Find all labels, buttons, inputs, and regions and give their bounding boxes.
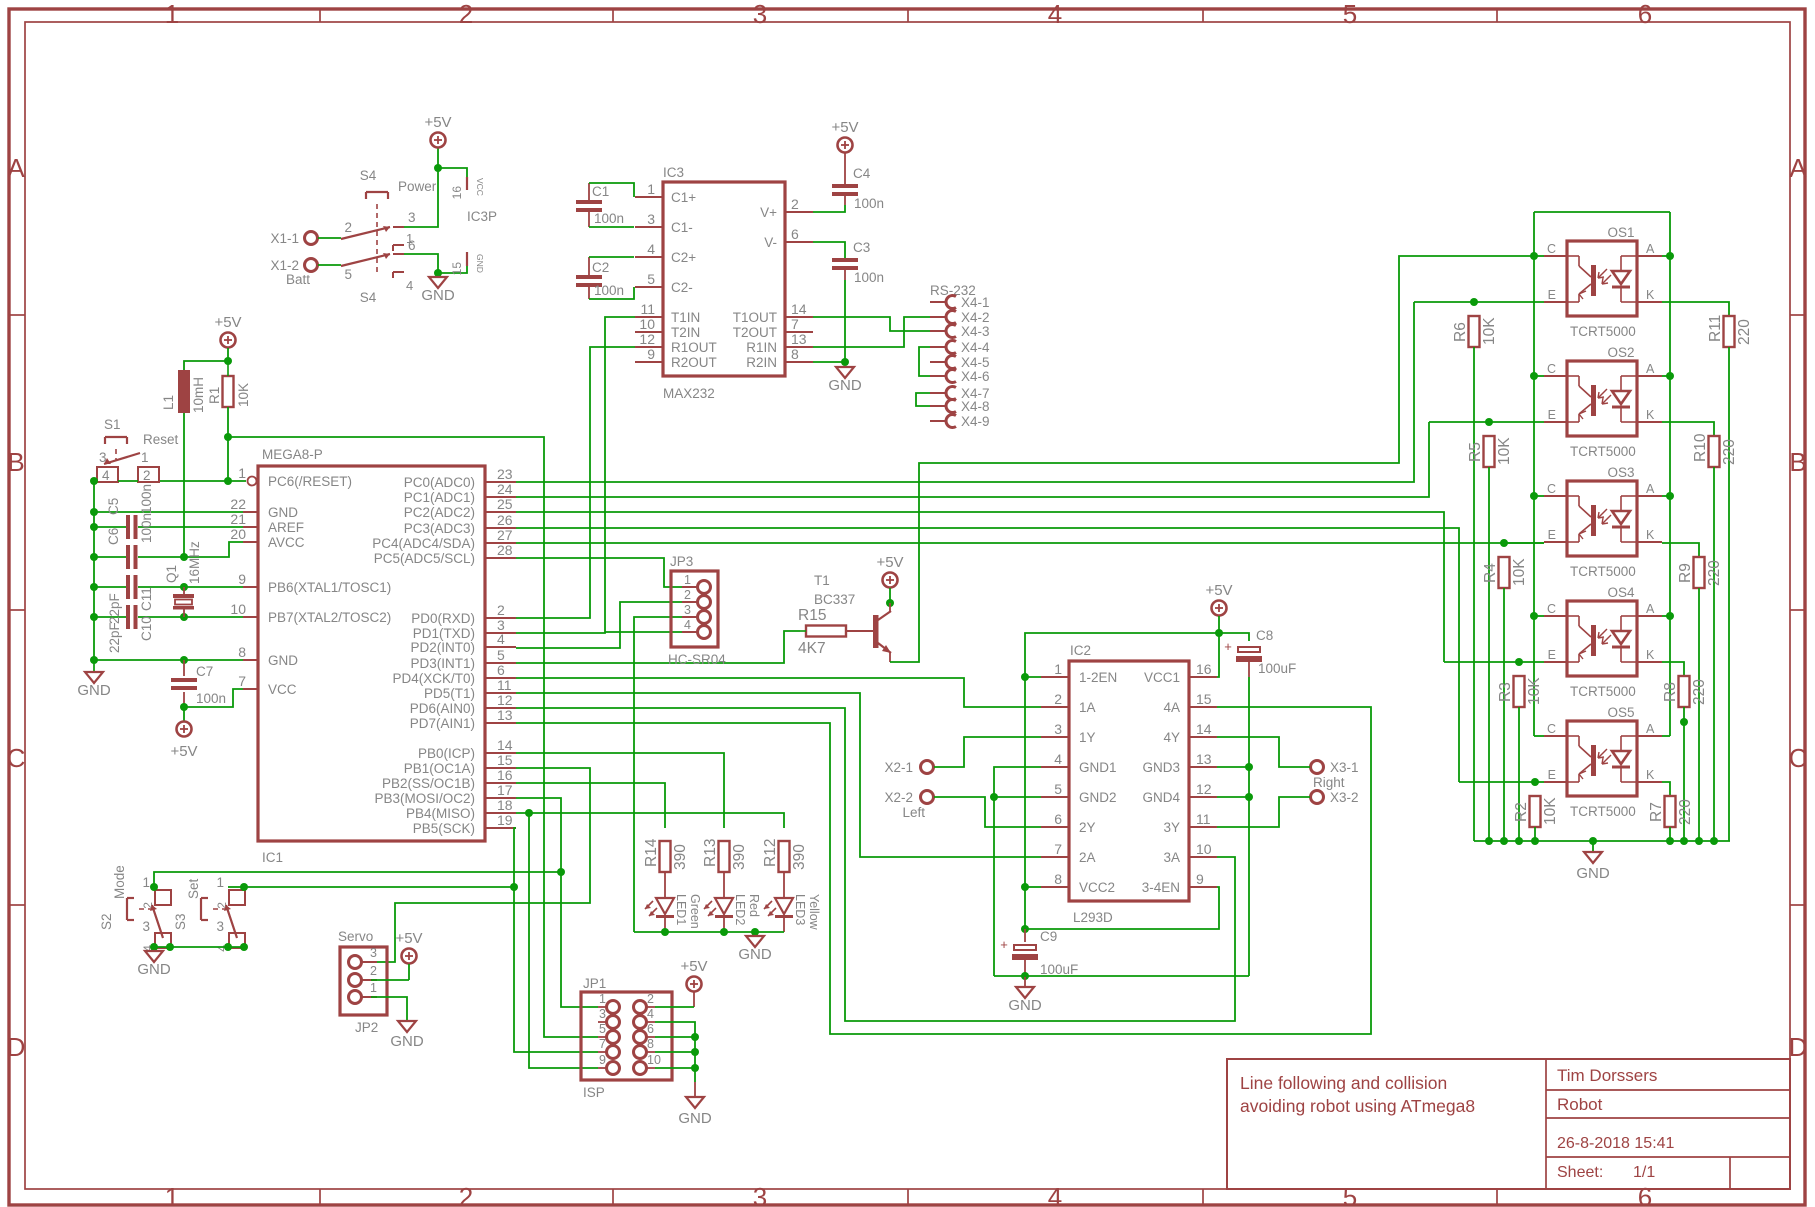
svg-text:15: 15 xyxy=(497,752,513,768)
svg-text:OS5: OS5 xyxy=(1607,705,1634,720)
svg-text:Power: Power xyxy=(398,179,437,194)
svg-text:8: 8 xyxy=(791,346,799,362)
svg-text:390: 390 xyxy=(672,844,689,870)
svg-text:avoiding robot using ATmega8: avoiding robot using ATmega8 xyxy=(1240,1096,1475,1116)
svg-text:1: 1 xyxy=(1054,661,1062,677)
svg-text:4Y: 4Y xyxy=(1163,730,1180,745)
svg-text:11: 11 xyxy=(497,677,512,693)
svg-text:10mH: 10mH xyxy=(191,377,206,413)
svg-text:2: 2 xyxy=(344,220,352,235)
svg-text:C3: C3 xyxy=(853,240,870,255)
svg-text:Mode: Mode xyxy=(112,865,127,899)
svg-text:Green: Green xyxy=(688,894,702,929)
svg-text:4: 4 xyxy=(1054,751,1062,767)
svg-text:2: 2 xyxy=(1054,691,1062,707)
svg-text:X4-8: X4-8 xyxy=(961,399,990,414)
svg-text:C6: C6 xyxy=(106,528,121,545)
svg-text:+5V: +5V xyxy=(214,314,241,331)
svg-text:LED3: LED3 xyxy=(793,894,807,925)
svg-text:Reset: Reset xyxy=(143,432,179,447)
svg-text:X4-5: X4-5 xyxy=(961,355,990,370)
svg-text:9: 9 xyxy=(647,346,655,362)
svg-text:3: 3 xyxy=(753,1182,767,1207)
svg-text:4: 4 xyxy=(102,468,110,483)
svg-text:GND: GND xyxy=(475,254,485,273)
svg-text:X4-9: X4-9 xyxy=(961,414,990,429)
svg-text:100n: 100n xyxy=(139,484,154,514)
svg-text:VCC2: VCC2 xyxy=(1079,880,1115,895)
svg-text:16MHz: 16MHz xyxy=(187,541,202,584)
svg-text:IC1: IC1 xyxy=(262,850,283,865)
svg-text:100uF: 100uF xyxy=(1258,661,1296,676)
svg-text:7: 7 xyxy=(1054,841,1062,857)
svg-text:VCC: VCC xyxy=(268,682,297,697)
svg-text:26-8-2018 15:41: 26-8-2018 15:41 xyxy=(1557,1135,1675,1152)
svg-text:PC6(/RESET): PC6(/RESET) xyxy=(268,474,352,489)
svg-text:S4: S4 xyxy=(360,168,377,183)
svg-text:2: 2 xyxy=(791,196,799,212)
svg-text:2: 2 xyxy=(370,964,377,978)
svg-text:GND: GND xyxy=(77,682,111,699)
svg-text:3: 3 xyxy=(216,919,224,934)
svg-text:10: 10 xyxy=(230,601,246,617)
svg-text:10: 10 xyxy=(647,1053,661,1067)
svg-text:14: 14 xyxy=(791,301,807,317)
svg-text:PB3(MOSI/OC2): PB3(MOSI/OC2) xyxy=(374,791,475,806)
svg-text:Sheet:: Sheet: xyxy=(1557,1164,1603,1181)
svg-text:K: K xyxy=(1646,528,1655,542)
svg-text:5: 5 xyxy=(599,1022,606,1036)
svg-text:LED2: LED2 xyxy=(733,894,747,925)
svg-text:PC1(ADC1): PC1(ADC1) xyxy=(404,490,475,505)
svg-text:C: C xyxy=(7,743,26,773)
svg-text:C: C xyxy=(1547,722,1556,736)
svg-text:28: 28 xyxy=(497,542,513,558)
svg-text:5: 5 xyxy=(497,647,505,663)
svg-text:7: 7 xyxy=(238,673,246,689)
svg-text:ISP: ISP xyxy=(583,1085,605,1100)
svg-text:D: D xyxy=(1789,1032,1808,1062)
svg-text:JP3: JP3 xyxy=(670,554,693,569)
svg-text:PB0(ICP): PB0(ICP) xyxy=(418,746,475,761)
svg-text:1: 1 xyxy=(165,1182,179,1207)
svg-text:6: 6 xyxy=(497,662,505,678)
svg-text:Red: Red xyxy=(747,894,761,917)
svg-text:R5: R5 xyxy=(1467,442,1484,462)
svg-text:V-: V- xyxy=(764,235,777,250)
svg-text:A: A xyxy=(7,153,25,183)
svg-text:C: C xyxy=(1547,602,1556,616)
svg-text:IC3: IC3 xyxy=(663,165,684,180)
svg-text:100n: 100n xyxy=(594,211,624,226)
svg-text:PD5(T1): PD5(T1) xyxy=(424,686,475,701)
svg-text:E: E xyxy=(1548,768,1556,782)
svg-text:+: + xyxy=(1224,639,1232,654)
svg-text:4K7: 4K7 xyxy=(798,640,826,657)
svg-text:L293D: L293D xyxy=(1073,910,1113,925)
svg-text:GND: GND xyxy=(421,287,455,304)
svg-text:R1IN: R1IN xyxy=(746,340,777,355)
svg-text:TCRT5000: TCRT5000 xyxy=(1570,444,1636,459)
svg-text:9: 9 xyxy=(238,571,246,587)
svg-text:C: C xyxy=(1547,242,1556,256)
svg-text:6: 6 xyxy=(1054,811,1062,827)
svg-text:PB7(XTAL2/TOSC2): PB7(XTAL2/TOSC2) xyxy=(268,610,391,625)
svg-text:12: 12 xyxy=(639,331,655,347)
svg-text:IC2: IC2 xyxy=(1070,643,1091,658)
svg-text:PC5(ADC5/SCL): PC5(ADC5/SCL) xyxy=(374,551,475,566)
svg-text:C2-: C2- xyxy=(671,280,693,295)
svg-text:23: 23 xyxy=(497,466,513,482)
svg-text:PC4(ADC4/SDA): PC4(ADC4/SDA) xyxy=(372,536,475,551)
svg-text:4: 4 xyxy=(684,618,691,632)
svg-text:220: 220 xyxy=(1706,560,1723,586)
svg-text:R10: R10 xyxy=(1692,433,1709,462)
svg-text:A: A xyxy=(1646,722,1655,736)
svg-text:22: 22 xyxy=(230,496,246,512)
svg-text:8: 8 xyxy=(238,644,246,660)
svg-text:R6: R6 xyxy=(1452,322,1469,342)
svg-text:Set: Set xyxy=(186,878,201,899)
svg-text:1: 1 xyxy=(165,0,179,29)
svg-text:10: 10 xyxy=(639,316,655,332)
svg-text:2A: 2A xyxy=(1079,850,1096,865)
svg-text:T1: T1 xyxy=(814,573,830,588)
svg-text:C5: C5 xyxy=(106,498,121,515)
svg-text:22pF: 22pF xyxy=(107,593,122,624)
svg-text:GND3: GND3 xyxy=(1142,760,1180,775)
svg-text:PB1(OC1A): PB1(OC1A) xyxy=(404,761,475,776)
svg-text:2: 2 xyxy=(684,588,691,602)
svg-text:L1: L1 xyxy=(161,395,176,410)
svg-text:TCRT5000: TCRT5000 xyxy=(1570,564,1636,579)
svg-text:T2OUT: T2OUT xyxy=(733,325,777,340)
svg-text:+5V: +5V xyxy=(170,743,197,760)
svg-text:1: 1 xyxy=(406,231,413,246)
svg-text:5: 5 xyxy=(344,267,352,282)
svg-text:1Y: 1Y xyxy=(1079,730,1096,745)
svg-text:PB6(XTAL1/TOSC1): PB6(XTAL1/TOSC1) xyxy=(268,580,391,595)
svg-text:5: 5 xyxy=(1054,781,1062,797)
svg-text:4A: 4A xyxy=(1163,700,1180,715)
svg-text:K: K xyxy=(1646,648,1655,662)
svg-text:10K: 10K xyxy=(1542,797,1559,825)
svg-text:PD2(INT0): PD2(INT0) xyxy=(410,640,475,655)
svg-text:12: 12 xyxy=(497,692,513,708)
svg-text:IC3P: IC3P xyxy=(467,209,497,224)
svg-text:T2IN: T2IN xyxy=(671,325,700,340)
svg-text:24: 24 xyxy=(497,481,513,497)
svg-text:5: 5 xyxy=(1343,0,1357,29)
svg-text:3: 3 xyxy=(647,211,655,227)
svg-text:A: A xyxy=(1646,362,1655,376)
svg-text:C7: C7 xyxy=(196,664,213,679)
svg-text:390: 390 xyxy=(731,844,748,870)
svg-text:GND: GND xyxy=(1576,865,1610,882)
svg-text:15: 15 xyxy=(450,262,464,276)
svg-text:2: 2 xyxy=(143,468,151,483)
svg-text:C9: C9 xyxy=(1040,929,1057,944)
svg-text:Yellow: Yellow xyxy=(807,894,821,931)
svg-text:13: 13 xyxy=(1196,751,1212,767)
svg-text:+5V: +5V xyxy=(876,554,903,571)
svg-text:LED1: LED1 xyxy=(674,894,688,925)
svg-text:V+: V+ xyxy=(760,205,777,220)
svg-text:R1OUT: R1OUT xyxy=(671,340,717,355)
svg-text:S2: S2 xyxy=(99,913,114,930)
svg-text:R1: R1 xyxy=(207,387,222,404)
svg-text:100n: 100n xyxy=(854,196,884,211)
svg-text:A: A xyxy=(1646,242,1655,256)
svg-text:8: 8 xyxy=(1054,871,1062,887)
svg-text:T1IN: T1IN xyxy=(671,310,700,325)
svg-text:D: D xyxy=(7,1032,26,1062)
svg-text:Right: Right xyxy=(1313,775,1345,790)
svg-text:R3: R3 xyxy=(1497,682,1514,702)
svg-text:4: 4 xyxy=(406,278,413,293)
svg-text:R2: R2 xyxy=(1513,802,1530,822)
svg-text:Tim Dorssers: Tim Dorssers xyxy=(1557,1066,1657,1085)
svg-text:1: 1 xyxy=(684,573,691,587)
svg-text:BC337: BC337 xyxy=(814,592,855,607)
svg-text:14: 14 xyxy=(1196,721,1212,737)
svg-text:GND: GND xyxy=(390,1033,424,1050)
svg-text:4: 4 xyxy=(647,1007,654,1021)
svg-text:GND: GND xyxy=(137,961,171,978)
svg-text:X1-1: X1-1 xyxy=(270,231,299,246)
svg-text:1A: 1A xyxy=(1079,700,1096,715)
svg-text:12: 12 xyxy=(1196,781,1212,797)
svg-text:6: 6 xyxy=(647,1022,654,1036)
svg-text:14: 14 xyxy=(497,737,513,753)
svg-text:A: A xyxy=(1646,602,1655,616)
svg-text:220: 220 xyxy=(1736,319,1753,345)
svg-text:TCRT5000: TCRT5000 xyxy=(1570,684,1636,699)
svg-text:R2IN: R2IN xyxy=(746,355,777,370)
svg-text:X3-2: X3-2 xyxy=(1330,790,1359,805)
svg-text:15: 15 xyxy=(1196,691,1212,707)
svg-text:X4-6: X4-6 xyxy=(961,369,990,384)
svg-text:C11: C11 xyxy=(139,587,154,611)
svg-text:19: 19 xyxy=(497,812,513,828)
svg-text:PB5(SCK): PB5(SCK) xyxy=(413,821,475,836)
svg-text:100n: 100n xyxy=(854,270,884,285)
svg-text:5: 5 xyxy=(647,271,655,287)
svg-text:26: 26 xyxy=(497,512,513,528)
svg-text:4: 4 xyxy=(1048,0,1062,29)
svg-text:9: 9 xyxy=(599,1053,606,1067)
svg-text:AVCC: AVCC xyxy=(268,535,305,550)
svg-text:Servo: Servo xyxy=(338,929,373,944)
svg-text:E: E xyxy=(1548,648,1556,662)
svg-text:TCRT5000: TCRT5000 xyxy=(1570,804,1636,819)
svg-text:13: 13 xyxy=(791,331,807,347)
svg-text:Batt: Batt xyxy=(286,272,310,287)
svg-text:100n: 100n xyxy=(139,513,154,543)
svg-text:220: 220 xyxy=(1677,799,1694,825)
svg-text:2: 2 xyxy=(497,602,505,618)
svg-text:AREF: AREF xyxy=(268,520,304,535)
svg-text:100n: 100n xyxy=(594,283,624,298)
svg-text:Robot: Robot xyxy=(1557,1095,1603,1114)
svg-text:X4-3: X4-3 xyxy=(961,324,990,339)
svg-text:T1OUT: T1OUT xyxy=(733,310,777,325)
svg-text:PB4(MISO): PB4(MISO) xyxy=(406,806,475,821)
svg-text:20: 20 xyxy=(230,526,246,542)
svg-text:VCC: VCC xyxy=(475,178,485,196)
svg-text:GND: GND xyxy=(678,1110,712,1127)
svg-text:GND: GND xyxy=(268,505,298,520)
svg-text:6: 6 xyxy=(791,226,799,242)
svg-text:100n: 100n xyxy=(196,691,226,706)
svg-text:Left: Left xyxy=(902,805,925,820)
svg-text:X4-4: X4-4 xyxy=(961,340,990,355)
svg-text:6: 6 xyxy=(1638,0,1652,29)
svg-text:10K: 10K xyxy=(1496,437,1513,465)
svg-text:E: E xyxy=(1548,288,1556,302)
svg-text:A: A xyxy=(1789,153,1807,183)
svg-text:PD0(RXD): PD0(RXD) xyxy=(411,611,475,626)
svg-text:+5V: +5V xyxy=(395,930,422,947)
svg-text:R2OUT: R2OUT xyxy=(671,355,717,370)
svg-text:7: 7 xyxy=(791,316,799,332)
svg-text:PB2(SS/OC1B): PB2(SS/OC1B) xyxy=(382,776,475,791)
svg-text:X4-1: X4-1 xyxy=(961,295,990,310)
svg-text:+5V: +5V xyxy=(680,958,707,975)
svg-text:2Y: 2Y xyxy=(1079,820,1096,835)
svg-text:1: 1 xyxy=(142,875,150,890)
svg-text:S4: S4 xyxy=(360,290,377,305)
svg-text:C1-: C1- xyxy=(671,220,693,235)
svg-text:GND2: GND2 xyxy=(1079,790,1117,805)
svg-text:+5V: +5V xyxy=(424,114,451,131)
svg-text:E: E xyxy=(1548,528,1556,542)
svg-text:3A: 3A xyxy=(1163,850,1180,865)
svg-text:R13: R13 xyxy=(702,839,719,867)
svg-text:S1: S1 xyxy=(104,417,121,432)
svg-text:+5V: +5V xyxy=(831,119,858,136)
svg-text:3: 3 xyxy=(753,0,767,29)
svg-text:17: 17 xyxy=(497,782,513,798)
svg-text:R14: R14 xyxy=(643,838,660,867)
svg-text:TCRT5000: TCRT5000 xyxy=(1570,324,1636,339)
svg-text:220: 220 xyxy=(1721,439,1738,465)
svg-text:4: 4 xyxy=(497,631,505,647)
svg-text:1: 1 xyxy=(647,181,655,197)
svg-text:C: C xyxy=(1547,362,1556,376)
svg-text:R12: R12 xyxy=(762,839,779,867)
svg-text:3: 3 xyxy=(99,450,107,465)
svg-text:R11: R11 xyxy=(1707,315,1724,342)
svg-text:11: 11 xyxy=(640,301,655,317)
svg-text:X1-2: X1-2 xyxy=(270,258,299,273)
svg-text:C4: C4 xyxy=(853,166,871,181)
svg-text:PC2(ADC2): PC2(ADC2) xyxy=(404,505,475,520)
svg-text:+5V: +5V xyxy=(1205,582,1232,599)
svg-text:1: 1 xyxy=(238,465,246,481)
svg-text:PD7(AIN1): PD7(AIN1) xyxy=(410,716,475,731)
svg-text:1: 1 xyxy=(370,981,377,995)
svg-text:9: 9 xyxy=(1196,871,1204,887)
svg-text:3: 3 xyxy=(370,946,377,960)
svg-text:16: 16 xyxy=(1196,661,1212,677)
svg-text:3: 3 xyxy=(599,1007,606,1021)
svg-text:1: 1 xyxy=(599,992,606,1006)
svg-text:GND: GND xyxy=(828,377,862,394)
svg-text:OS1: OS1 xyxy=(1607,225,1634,240)
svg-text:OS3: OS3 xyxy=(1607,465,1634,480)
svg-text:27: 27 xyxy=(497,527,513,543)
svg-text:C1: C1 xyxy=(592,184,609,199)
svg-text:X2-2: X2-2 xyxy=(884,790,913,805)
svg-text:C8: C8 xyxy=(1256,628,1273,643)
svg-text:100uF: 100uF xyxy=(1040,962,1078,977)
svg-text:PD3(INT1): PD3(INT1) xyxy=(410,656,475,671)
svg-text:E: E xyxy=(1548,408,1556,422)
svg-text:R4: R4 xyxy=(1482,563,1499,583)
svg-text:13: 13 xyxy=(497,707,513,723)
svg-text:PC0(ADC0): PC0(ADC0) xyxy=(404,475,475,490)
svg-text:B: B xyxy=(7,447,24,477)
svg-text:3: 3 xyxy=(684,603,691,617)
svg-text:10K: 10K xyxy=(1511,558,1528,586)
svg-text:C: C xyxy=(1789,743,1808,773)
svg-text:Line following and collision: Line following and collision xyxy=(1240,1073,1447,1093)
svg-text:2: 2 xyxy=(647,992,654,1006)
svg-text:GND: GND xyxy=(268,653,298,668)
svg-text:3: 3 xyxy=(408,210,416,225)
svg-text:1/1: 1/1 xyxy=(1633,1164,1655,1181)
svg-text:2: 2 xyxy=(459,0,473,29)
svg-text:4: 4 xyxy=(647,241,655,257)
svg-text:X4-2: X4-2 xyxy=(961,310,990,325)
svg-text:GND1: GND1 xyxy=(1079,760,1117,775)
svg-text:10K: 10K xyxy=(1481,317,1498,345)
svg-text:3: 3 xyxy=(142,919,150,934)
svg-text:PD6(AIN0): PD6(AIN0) xyxy=(410,701,475,716)
svg-text:MAX232: MAX232 xyxy=(663,386,715,401)
svg-text:HC-SR04: HC-SR04 xyxy=(668,652,726,667)
svg-text:GND: GND xyxy=(1008,997,1042,1014)
svg-text:10K: 10K xyxy=(1526,677,1543,705)
svg-text:GND4: GND4 xyxy=(1142,790,1180,805)
svg-text:18: 18 xyxy=(497,797,513,813)
svg-text:PC3(ADC3): PC3(ADC3) xyxy=(404,521,475,536)
svg-text:C10: C10 xyxy=(139,616,154,641)
svg-text:B: B xyxy=(1789,447,1806,477)
svg-text:10: 10 xyxy=(1196,841,1212,857)
svg-text:390: 390 xyxy=(791,844,808,870)
svg-text:MEGA8-P: MEGA8-P xyxy=(262,447,323,462)
svg-text:JP2: JP2 xyxy=(355,1020,378,1035)
svg-text:8: 8 xyxy=(647,1037,654,1051)
svg-text:3-4EN: 3-4EN xyxy=(1142,880,1180,895)
svg-text:K: K xyxy=(1646,768,1655,782)
svg-text:C2+: C2+ xyxy=(671,250,696,265)
svg-text:10K: 10K xyxy=(236,383,251,407)
svg-text:220: 220 xyxy=(1691,679,1708,705)
svg-text:1: 1 xyxy=(141,450,149,465)
svg-text:11: 11 xyxy=(1196,811,1211,827)
svg-text:3Y: 3Y xyxy=(1163,820,1180,835)
svg-text:1: 1 xyxy=(216,875,224,890)
svg-text:JP1: JP1 xyxy=(583,976,606,991)
svg-text:A: A xyxy=(1646,482,1655,496)
svg-text:16: 16 xyxy=(497,767,513,783)
svg-text:C: C xyxy=(1547,482,1556,496)
svg-text:OS2: OS2 xyxy=(1607,345,1634,360)
svg-text:X3-1: X3-1 xyxy=(1330,760,1359,775)
